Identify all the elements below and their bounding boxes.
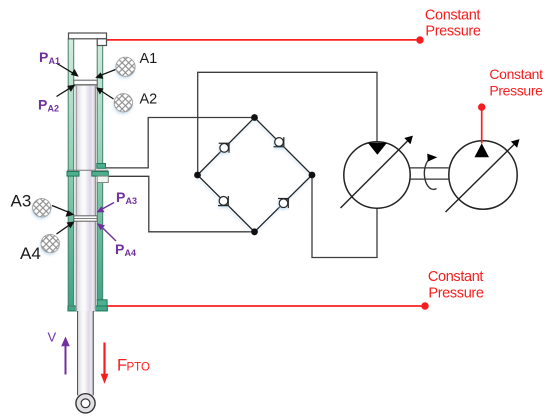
label A4 <box>20 244 41 263</box>
node top <box>251 114 258 121</box>
check valve CV3 (lower-left edge, seat corner bottom-right) <box>218 196 228 206</box>
svg-text:P: P <box>115 241 124 257</box>
piston 2 (lower cylinder) <box>74 216 97 221</box>
svg-text:Constant: Constant <box>428 269 484 285</box>
check valve bridge diamond <box>198 118 313 232</box>
svg-text:A3: A3 <box>11 192 32 211</box>
label FPTO (red) <box>117 357 150 375</box>
svg-text:A4: A4 <box>20 244 41 263</box>
mid junction left tab <box>67 172 79 177</box>
red constant-pressure line top (port A1) <box>107 36 424 43</box>
annotation circle A3 (crosshatched) <box>33 199 51 217</box>
velocity arrow up (purple) <box>61 337 70 375</box>
check valve CV1 (upper-left edge, seat corner top-right) <box>219 143 229 153</box>
svg-text:Constant: Constant <box>489 66 543 82</box>
svg-text:V: V <box>48 330 57 345</box>
label PA1 <box>39 49 60 66</box>
cylinder left wall <box>68 39 74 307</box>
label PA2 <box>38 97 59 114</box>
label A3 <box>11 192 32 211</box>
svg-text:Pressure: Pressure <box>428 286 484 302</box>
pump/motor P1 (variable, left) <box>341 136 413 209</box>
rod lower section (below cylinder) <box>77 311 93 396</box>
label V (velocity, purple) <box>48 330 57 345</box>
piston 1 (upper cylinder) <box>74 80 97 86</box>
text Constant Pressure (right, P2) <box>489 66 543 98</box>
check valve CV4 (lower-right edge, seat corner top-right) <box>278 199 288 209</box>
arrow PA4 to piston2 bottom-right (purple) <box>97 223 116 241</box>
svg-text:PTO: PTO <box>127 362 150 374</box>
label PA3 <box>116 189 137 206</box>
wire from A3 port to bridge bottom node <box>105 176 255 232</box>
svg-text:Pressure: Pressure <box>425 24 481 40</box>
wire from bridge right node to pump P1 bottom <box>312 175 377 258</box>
rod eye end <box>76 394 95 413</box>
svg-text:Constant: Constant <box>425 7 481 23</box>
wire from bridge left node to pump P1 top <box>198 72 377 175</box>
cylinder bottom end bar <box>68 306 107 311</box>
svg-text:A2: A2 <box>48 104 60 114</box>
arrow PA2 to piston1 bottom-left <box>57 85 76 97</box>
text Constant Pressure (bottom) <box>428 269 484 302</box>
arrow A3 to piston2 top-left <box>52 206 75 217</box>
cylinder right wall upper (cyl 1) <box>97 46 103 164</box>
svg-text:Pressure: Pressure <box>489 82 543 98</box>
cylinder top cap <box>69 33 107 46</box>
red constant-pressure line to P2 <box>478 103 485 143</box>
check valve CV2 (upper-right edge, seat corner bottom-right) <box>274 137 284 147</box>
annotation circle A2 (crosshatched) <box>114 94 132 112</box>
svg-text:A1: A1 <box>49 56 61 66</box>
annotation circle A4 (crosshatched) <box>41 234 59 252</box>
label A2 <box>140 92 158 108</box>
arrow A4 to piston2 bottom-left <box>57 222 75 235</box>
cylinder right wall lower (cyl 2) <box>97 183 107 307</box>
arrow A1 to piston1 top-right <box>95 70 115 79</box>
label PA4 <box>115 241 136 258</box>
arrow PA3 to piston2 top-right (purple) <box>96 203 114 213</box>
wire from A2 port to bridge top node <box>103 118 255 168</box>
annotation circle A1 (crosshatched) <box>116 57 135 76</box>
svg-text:P: P <box>116 189 125 205</box>
svg-text:A1: A1 <box>140 51 158 67</box>
svg-text:A3: A3 <box>126 196 138 206</box>
node bottom <box>251 228 258 235</box>
svg-text:A2: A2 <box>140 92 158 108</box>
node right <box>309 172 316 179</box>
node left <box>194 172 201 179</box>
piston rod (through both cylinders) <box>76 86 96 311</box>
arrow PA1 to piston1 top-left <box>57 64 79 77</box>
shaft rotation arrow <box>424 154 437 190</box>
svg-text:A4: A4 <box>125 248 137 258</box>
svg-text:P: P <box>38 97 47 113</box>
mid junction plate line <box>67 169 108 171</box>
A2 port foot (upper cyl, right wall bottom) <box>97 164 106 169</box>
label A1 <box>140 51 158 67</box>
arrow A2 to piston1 bottom-right <box>96 87 114 99</box>
svg-text:P: P <box>39 49 48 65</box>
red constant-pressure line bottom (port A4) <box>107 302 429 309</box>
shaft between P1 and P2 <box>410 168 449 179</box>
FPTO force arrow down (red) <box>101 343 109 384</box>
text Constant Pressure (top) <box>425 7 481 39</box>
pump/motor P2 (variable, right) <box>446 139 520 212</box>
mid junction right flange (A3 port) <box>92 172 109 183</box>
